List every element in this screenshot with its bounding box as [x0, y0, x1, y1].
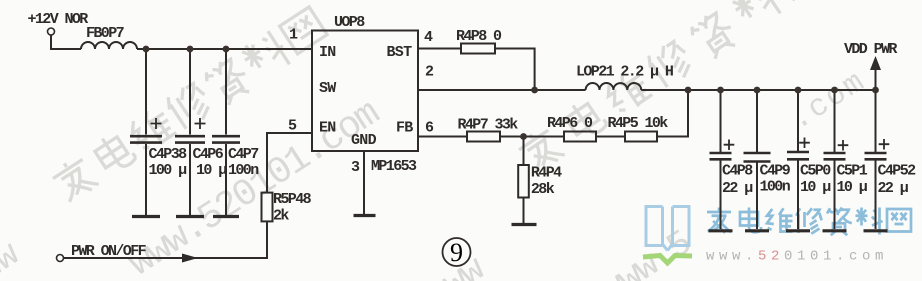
svg-text:1: 1	[289, 27, 298, 44]
svg-text:22 μ: 22 μ	[722, 180, 753, 197]
svg-text:+12V NOR: +12V NOR	[28, 11, 89, 28]
svg-text:2k: 2k	[273, 208, 289, 225]
svg-text:IN: IN	[319, 44, 336, 61]
svg-text:3: 3	[351, 159, 360, 176]
svg-text:UOP8: UOP8	[334, 14, 365, 31]
svg-text:VDD PWR: VDD PWR	[844, 41, 897, 58]
svg-text:9: 9	[450, 238, 463, 267]
svg-text:22 μ: 22 μ	[878, 180, 909, 197]
svg-text:C5P0: C5P0	[800, 163, 831, 180]
svg-text:LOP21 2.2 μ H: LOP21 2.2 μ H	[576, 64, 673, 81]
svg-text:100n: 100n	[760, 179, 791, 196]
svg-text:www.520101.com: www.520101.com	[121, 93, 387, 281]
svg-text:C4P52: C4P52	[878, 163, 917, 180]
svg-text:C4P6: C4P6	[193, 146, 224, 163]
svg-text:R4P4: R4P4	[531, 165, 562, 182]
svg-text:100n: 100n	[228, 162, 259, 179]
svg-text:SW: SW	[319, 80, 336, 97]
svg-text:www: www	[0, 234, 27, 281]
svg-text:R5P48: R5P48	[273, 191, 312, 208]
svg-text:R4P7 33k: R4P7 33k	[458, 117, 519, 134]
svg-text:FB: FB	[396, 120, 413, 137]
svg-text:5: 5	[288, 118, 297, 135]
svg-text:FB0P7: FB0P7	[86, 25, 124, 42]
svg-text:R4P6 0: R4P6 0	[547, 115, 593, 132]
svg-text:C4P38: C4P38	[149, 146, 188, 163]
svg-text:10 μ: 10 μ	[196, 162, 227, 179]
svg-text:6: 6	[425, 120, 434, 137]
svg-text:C4P7: C4P7	[228, 146, 258, 163]
svg-text:www.520101.com: www.520101.com	[706, 249, 888, 265]
svg-text:PWR ON/OFF: PWR ON/OFF	[71, 243, 147, 260]
svg-text:R4P8 0: R4P8 0	[456, 28, 502, 45]
svg-text:10 μ: 10 μ	[800, 179, 831, 196]
svg-text:10 μ: 10 μ	[837, 179, 868, 196]
svg-text:BST: BST	[387, 44, 413, 61]
svg-text:R4P5 10k: R4P5 10k	[608, 115, 669, 132]
svg-text:28k: 28k	[531, 181, 555, 198]
svg-text:GND: GND	[351, 132, 377, 149]
svg-text:C4P8: C4P8	[722, 163, 753, 180]
svg-text:2: 2	[425, 64, 434, 81]
svg-text:MP1653: MP1653	[371, 158, 417, 175]
svg-text:C4P9: C4P9	[760, 163, 791, 180]
svg-text:EN: EN	[319, 120, 336, 137]
svg-text:100 μ: 100 μ	[149, 162, 188, 179]
svg-text:C5P1: C5P1	[837, 163, 868, 180]
svg-text:4: 4	[424, 29, 433, 46]
